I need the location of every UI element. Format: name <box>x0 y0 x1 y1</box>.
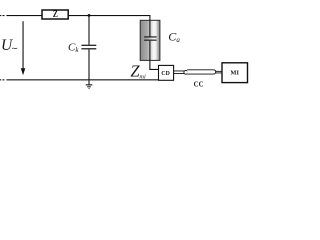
capacitor Ck <box>88 15 89 44</box>
wire top rail right segment <box>68 15 150 16</box>
wire coax stub right <box>216 70 222 73</box>
wire bottom rail dash-dot continuation <box>0 79 1 80</box>
node junction dot <box>88 14 91 17</box>
connecting cable CC body <box>187 70 216 74</box>
ground <box>88 80 89 84</box>
wire top rail left segment <box>6 15 42 16</box>
svg-text:Z: Z <box>53 9 58 20</box>
svg-text:MI: MI <box>230 69 239 76</box>
resistor Z <box>42 10 68 19</box>
measuring instrument MI <box>222 63 248 83</box>
wire elbow into Ca <box>149 15 150 20</box>
svg-text:CD: CD <box>161 71 169 77</box>
wire bottom rail <box>6 79 158 80</box>
arrow voltage direction <box>23 21 24 69</box>
wire coax stub left <box>174 70 185 73</box>
svg-text:∼: ∼ <box>11 43 18 53</box>
coupling device CD <box>159 65 174 80</box>
svg-text:mi: mi <box>139 73 146 80</box>
svg-text:CC: CC <box>194 81 204 88</box>
wire elbow from Ca to CD <box>149 69 158 70</box>
capacitor Ca <box>149 20 150 36</box>
connecting cable CC connector ring <box>184 70 188 74</box>
wire top rail dash-dot continuation <box>0 15 1 16</box>
test object Ca enclosure <box>140 20 160 60</box>
